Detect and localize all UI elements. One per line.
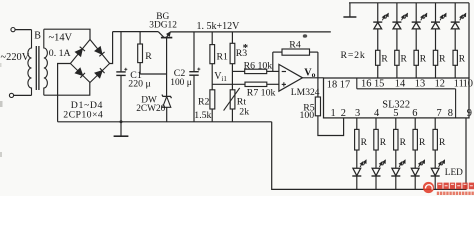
svg-text:16 15: 16 15: [361, 79, 384, 90]
svg-text:13: 13: [415, 79, 425, 90]
svg-text:R: R: [419, 138, 426, 148]
svg-text:R6 10k: R6 10k: [244, 60, 273, 71]
svg-text:2: 2: [341, 108, 346, 119]
svg-text:4: 4: [374, 108, 380, 119]
svg-text:7: 7: [437, 108, 442, 119]
svg-text:18 17: 18 17: [327, 80, 350, 91]
svg-text:*: *: [302, 32, 308, 44]
svg-text:12: 12: [435, 79, 445, 90]
svg-text:LM324: LM324: [291, 87, 320, 98]
svg-text:2CP10×4: 2CP10×4: [63, 109, 103, 120]
svg-text:14: 14: [395, 79, 406, 90]
svg-text:R: R: [459, 55, 466, 65]
svg-text:R: R: [361, 138, 368, 148]
svg-text:*: *: [243, 42, 249, 54]
svg-text:3: 3: [355, 108, 360, 119]
svg-text:R: R: [420, 55, 427, 65]
svg-text:2k: 2k: [239, 107, 249, 118]
svg-text:R7 10k: R7 10k: [247, 87, 276, 98]
svg-text:R4: R4: [289, 40, 301, 51]
svg-text:1.5k: 1.5k: [194, 110, 211, 121]
svg-text:R: R: [439, 55, 446, 65]
svg-text:R: R: [400, 138, 407, 148]
svg-text:220 μ: 220 μ: [128, 79, 150, 90]
svg-text:0. 1A: 0. 1A: [49, 48, 71, 59]
svg-text:LED: LED: [445, 168, 463, 178]
svg-text:R: R: [381, 55, 388, 65]
svg-text:10: 10: [463, 79, 473, 90]
svg-text:R: R: [439, 138, 446, 148]
svg-text:100: 100: [300, 110, 315, 121]
svg-text:2CW20: 2CW20: [136, 104, 165, 114]
svg-text:R=2k: R=2k: [341, 50, 366, 61]
svg-text:~14V: ~14V: [49, 33, 73, 44]
svg-text:8: 8: [448, 108, 453, 119]
svg-text:9: 9: [467, 108, 472, 119]
svg-text:1. 5k+12V: 1. 5k+12V: [197, 21, 241, 32]
svg-text:R: R: [380, 138, 387, 148]
svg-text:Vo: Vo: [304, 67, 315, 79]
svg-text:6: 6: [412, 108, 417, 119]
svg-text:R: R: [401, 55, 408, 65]
svg-text:B: B: [34, 31, 41, 42]
svg-text:~220V: ~220V: [1, 52, 30, 63]
svg-text:1: 1: [331, 108, 336, 119]
svg-text:100 μ: 100 μ: [170, 78, 191, 88]
svg-text:R: R: [145, 51, 152, 62]
svg-text:R1: R1: [217, 52, 229, 63]
svg-text:3DG12: 3DG12: [149, 21, 177, 31]
svg-text:R2: R2: [198, 97, 210, 108]
svg-text:5: 5: [393, 108, 398, 119]
